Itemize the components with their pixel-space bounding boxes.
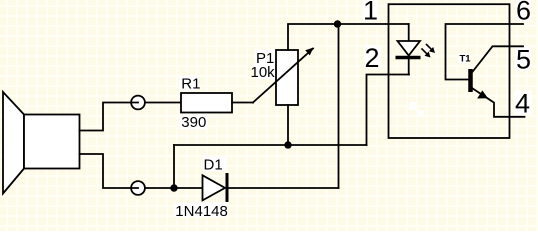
wire R1 to P1 wiper bbox=[232, 102, 253, 104]
label background 390 bbox=[180, 114, 207, 130]
wire D1 to riser bbox=[229, 187, 339, 189]
label background 1N4148 bbox=[174, 203, 228, 218]
label background pin 2 bbox=[365, 45, 381, 68]
junction dot D1 row bbox=[170, 184, 177, 191]
potentiometer P1 body bbox=[276, 50, 298, 105]
svg-text:R1: R1 bbox=[181, 76, 200, 93]
junction dot P1 bottom bbox=[284, 141, 291, 148]
label background pin 4 bbox=[514, 91, 532, 115]
optocoupler U1 box bbox=[389, 4, 510, 138]
label background D1 bbox=[203, 157, 226, 172]
svg-text:1: 1 bbox=[363, 0, 378, 26]
potentiometer P1 wiper arrow bbox=[253, 49, 313, 103]
transistor T1 emitter to pin4 bbox=[473, 89, 525, 117]
wire terminal to R1 bbox=[145, 102, 181, 104]
speaker LS1 body bbox=[24, 115, 80, 169]
svg-text:1N4148: 1N4148 bbox=[175, 203, 228, 220]
potentiometer P1 body white fill bbox=[276, 50, 298, 105]
label background R1 bbox=[180, 76, 199, 91]
LED cathode bar bbox=[396, 56, 421, 60]
stray white cell 2 bbox=[418, 111, 425, 118]
wire P1 bottom bbox=[287, 105, 289, 145]
label background pin 5 bbox=[515, 48, 531, 71]
svg-text:T1: T1 bbox=[460, 53, 472, 64]
svg-text:2: 2 bbox=[365, 43, 380, 73]
label background pin 1 bbox=[363, 0, 378, 21]
stray white cell 1 bbox=[410, 102, 417, 110]
terminal bottom white fill bbox=[132, 182, 145, 195]
LED anode stem bbox=[408, 24, 410, 41]
svg-text:10k: 10k bbox=[251, 64, 276, 81]
wire net C left drop bbox=[173, 145, 175, 188]
label background pin 6 bbox=[517, 0, 532, 21]
LED triangle bbox=[398, 41, 421, 56]
junction dot pin1 line bbox=[334, 20, 341, 27]
light arrow 2 bbox=[422, 49, 427, 54]
wire net C to pin2 bbox=[367, 75, 410, 146]
wire net C horizontal bbox=[174, 144, 367, 146]
svg-text:6: 6 bbox=[516, 0, 531, 26]
diode D1 cathode bar bbox=[226, 173, 229, 202]
wire speaker bottom to terminal bbox=[80, 154, 139, 188]
wire bottom row terminal to D1 bbox=[145, 187, 203, 189]
svg-text:5: 5 bbox=[516, 45, 531, 75]
svg-text:D1: D1 bbox=[204, 156, 223, 173]
label background P1 10k bbox=[255, 50, 277, 80]
wire P1 top to pin1 line bbox=[288, 24, 409, 50]
terminal top bbox=[131, 96, 145, 110]
transistor T1 base bar bbox=[468, 69, 473, 92]
svg-text:390: 390 bbox=[181, 114, 206, 131]
terminal bottom bbox=[131, 181, 145, 195]
transistor T1 collector to pin5 bbox=[473, 46, 523, 71]
light arrow 1 head bbox=[429, 47, 435, 53]
P1 wiper arrowhead bbox=[305, 48, 313, 56]
emitter arrowhead bbox=[477, 90, 488, 98]
wire speaker top to terminal bbox=[80, 103, 139, 131]
terminal top white fill bbox=[132, 96, 145, 109]
speaker LS1 cone bbox=[3, 92, 24, 194]
diode D1 triangle bbox=[203, 175, 226, 200]
LED cathode stem bbox=[408, 59, 410, 75]
label background T1 bbox=[458, 53, 470, 63]
light arrow 1 bbox=[427, 45, 432, 50]
pin6 to base wire bbox=[446, 24, 524, 80]
light arrow 2 head bbox=[425, 52, 431, 58]
wire riser D1 net to pin1 line bbox=[338, 24, 340, 188]
svg-text:4: 4 bbox=[515, 88, 530, 118]
resistor R1 bbox=[181, 93, 232, 113]
